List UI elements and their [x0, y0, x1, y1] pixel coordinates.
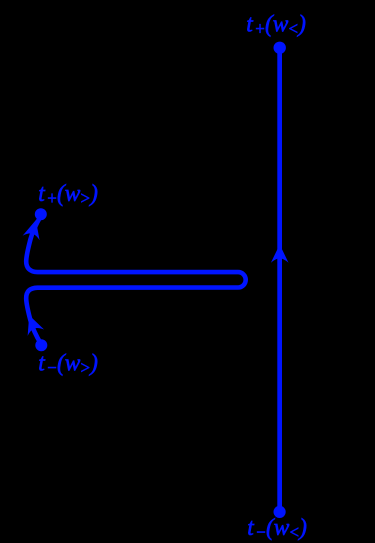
arrowhead on lower-left branch	[21, 312, 44, 336]
arrowhead on upper-left branch	[23, 218, 45, 241]
endpoint dot t+(w<)	[274, 42, 286, 54]
label t+(w<) top right	[246, 11, 306, 39]
hairpin contour (branch-cut contour around w_>)	[26, 216, 246, 344]
endpoint dot t-(w>)	[35, 339, 47, 351]
label t+(w>) upper left	[38, 180, 98, 208]
endpoint dot t-(w<)	[274, 506, 286, 518]
label t-(w>) lower left	[38, 350, 98, 378]
arrowhead on vertical line	[271, 245, 289, 263]
label t-(w<) bottom right	[247, 514, 307, 542]
endpoint dot t+(w>)	[35, 208, 47, 220]
vertical contour line (w_< cut)	[277, 48, 282, 512]
